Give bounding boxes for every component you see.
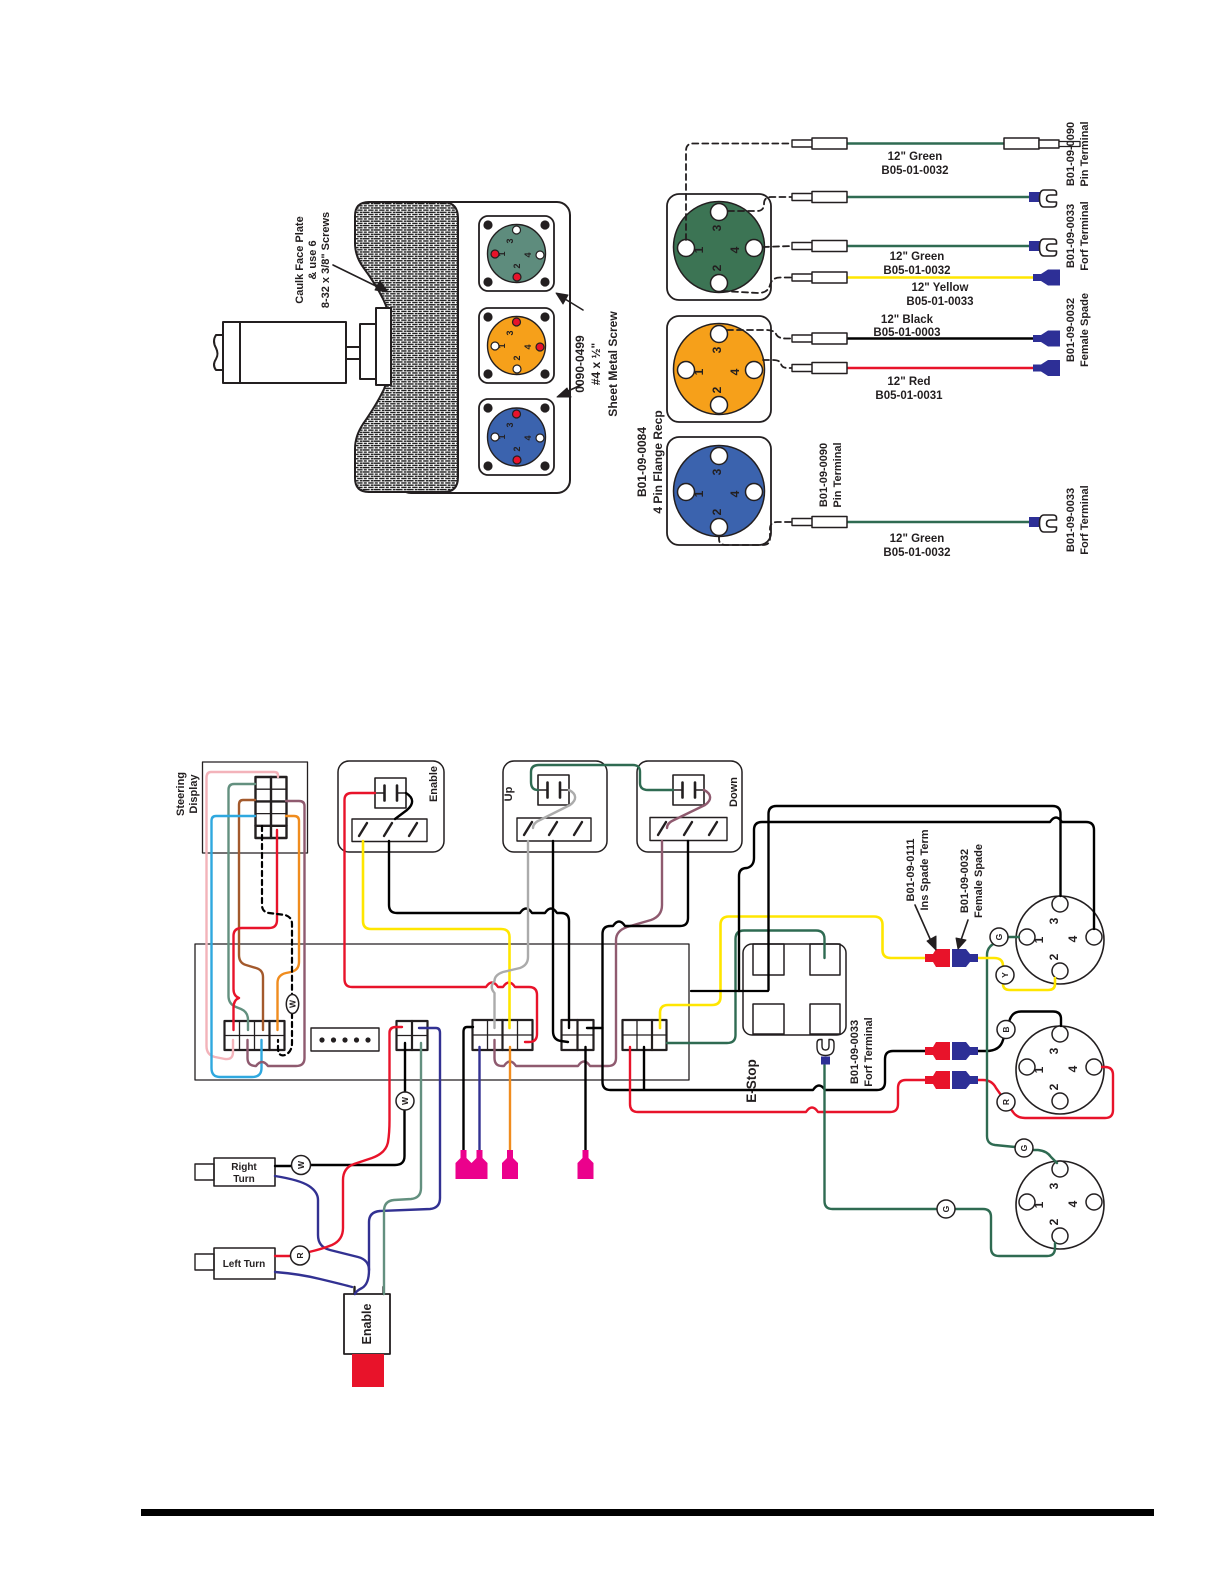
spade pair 1 red <box>925 949 950 967</box>
wire black block E stub <box>643 1047 645 1089</box>
svg-text:R: R <box>1001 1099 1011 1105</box>
right turn box <box>195 1158 275 1186</box>
svg-text:B05-01-0031: B05-01-0031 <box>875 390 943 402</box>
svg-text:12" Green: 12" Green <box>888 151 943 163</box>
svg-text:B01-09-0090: B01-09-0090 <box>818 443 830 507</box>
wire blue block B to enable plug <box>355 1028 440 1294</box>
wire red steering <box>234 830 278 1030</box>
wire purple steering <box>248 801 305 1066</box>
up switch contact symbol <box>538 775 569 805</box>
svg-text:Enable: Enable <box>360 1303 374 1344</box>
svg-text:12" Yellow: 12" Yellow <box>911 282 968 294</box>
wire red spade3 to conn2 pin4 <box>976 1067 1113 1118</box>
svg-text:B01-09-0033: B01-09-0033 <box>1065 204 1077 268</box>
magenta crimp 3 <box>502 1150 518 1179</box>
big flange recp orange <box>667 316 771 422</box>
svg-text:2: 2 <box>710 386 724 393</box>
wire3 12in green fork <box>792 239 1057 277</box>
enable terminal strip <box>352 819 427 842</box>
e-stop fork blue square <box>821 1057 830 1065</box>
svg-text:12" Red: 12" Red <box>887 376 930 388</box>
svg-text:12" Black: 12" Black <box>881 314 934 326</box>
svg-text:4: 4 <box>1066 1065 1080 1072</box>
svg-text:4: 4 <box>728 246 742 253</box>
wire teal up to down <box>531 765 673 790</box>
svg-text:1: 1 <box>497 434 507 439</box>
svg-text:B05-01-0032: B05-01-0032 <box>883 547 950 559</box>
svg-text:B01-09-0032: B01-09-0032 <box>1065 298 1077 362</box>
spade pair 3 blue <box>952 1071 978 1089</box>
output connector 1 <box>1016 896 1104 984</box>
wire black block C to crimp1 <box>464 1027 474 1150</box>
motor cylinder end cap line <box>239 322 241 383</box>
wire gray up to block C <box>492 841 528 1028</box>
svg-text:1: 1 <box>692 368 706 375</box>
G circle conn3 upper <box>1015 1139 1033 1157</box>
wire gray up switch link <box>533 790 575 828</box>
spade pair 2 blue <box>952 1042 978 1060</box>
shaft bar <box>346 347 360 359</box>
receptacle square orange <box>479 308 554 383</box>
wire pink steering loop <box>207 772 279 1059</box>
svg-text:B01-09-0033: B01-09-0033 <box>849 1020 861 1084</box>
svg-text:R: R <box>295 1252 305 1258</box>
svg-text:B: B <box>1001 1026 1011 1032</box>
svg-text:& use 6: & use 6 <box>307 240 319 279</box>
wire dashed steering to W <box>262 826 292 1055</box>
svg-text:2: 2 <box>1047 1083 1061 1090</box>
dashed pin4 orange to wire6 <box>763 360 792 368</box>
e-stop box <box>743 944 846 1035</box>
svg-text:0090-0499: 0090-0499 <box>573 335 587 393</box>
wire green G down to G conn3 pin3 <box>987 943 1057 1163</box>
wire brown steering <box>239 800 263 1030</box>
terminal block B <box>397 1021 428 1050</box>
svg-text:2: 2 <box>512 446 522 451</box>
svg-text:Forf Terminal: Forf Terminal <box>1079 201 1091 270</box>
dashed pin3 green to wire2 <box>728 197 792 211</box>
enable switch box <box>338 761 444 852</box>
svg-text:Right: Right <box>231 1162 257 1173</box>
svg-text:Y: Y <box>1000 972 1010 978</box>
wire red left turn to block B <box>275 1027 402 1256</box>
wire yellow spade1 to conn1 pin2 <box>976 958 1055 990</box>
wire black right turn chain <box>275 1043 405 1166</box>
wire orange steering <box>278 816 300 1030</box>
terminal block E <box>623 1020 667 1050</box>
svg-text:1: 1 <box>1032 1066 1046 1073</box>
wire2 green fork <box>792 190 1057 207</box>
svg-text:12" Green: 12" Green <box>890 533 945 545</box>
arrow caulk <box>333 265 388 292</box>
W meter ellipse on dashed wire <box>286 995 298 1014</box>
wire purple down to block C <box>495 841 663 1066</box>
svg-text:1: 1 <box>692 246 706 253</box>
svg-text:4: 4 <box>523 435 533 440</box>
svg-text:3: 3 <box>505 330 515 335</box>
wire blue left turn <box>275 1272 352 1287</box>
up switch box <box>503 761 607 852</box>
svg-text:B01-09-0090: B01-09-0090 <box>1065 122 1077 186</box>
svg-text:2: 2 <box>710 508 724 515</box>
dashed pin4 green to wire3 <box>763 246 792 247</box>
wire black enable switch link <box>395 793 412 819</box>
svg-text:B05-01-0033: B05-01-0033 <box>906 296 973 308</box>
svg-text:Steering: Steering <box>175 772 187 816</box>
wire5 12in black female spade <box>792 314 1060 347</box>
wire1 12in green pin terminal <box>792 138 1080 177</box>
footer rule <box>141 1509 1154 1516</box>
enable switch contact symbol <box>375 778 406 808</box>
svg-text:B01-09-0084: B01-09-0084 <box>635 427 649 497</box>
svg-text:2: 2 <box>512 263 522 268</box>
svg-text:Female Spade: Female Spade <box>1079 293 1091 367</box>
steering connector grid <box>256 777 287 838</box>
wire teal block B to enable plug <box>384 1043 421 1294</box>
svg-text:Forf Terminal: Forf Terminal <box>863 1017 875 1086</box>
R circle left turn <box>291 1246 310 1265</box>
svg-text:3: 3 <box>710 468 724 475</box>
svg-text:3: 3 <box>710 224 724 231</box>
mount step 2 <box>376 308 391 385</box>
svg-text:4: 4 <box>728 490 742 497</box>
svg-text:2: 2 <box>1047 953 1061 960</box>
G circle conn1 <box>990 928 1008 946</box>
svg-text:W: W <box>288 999 298 1008</box>
svg-text:4: 4 <box>728 368 742 375</box>
svg-text:W: W <box>296 1160 306 1169</box>
svg-text:Caulk Face Plate: Caulk Face Plate <box>294 216 306 303</box>
spade pair 2 red <box>925 1042 950 1060</box>
W circle below block B <box>396 1092 414 1110</box>
svg-text:4: 4 <box>523 252 533 257</box>
svg-text:Sheet Metal Screw: Sheet Metal Screw <box>606 311 620 417</box>
terminal block A <box>225 1021 285 1050</box>
svg-text:1: 1 <box>497 343 507 348</box>
svg-text:2: 2 <box>512 355 522 360</box>
svg-text:G: G <box>941 1205 951 1212</box>
svg-text:4: 4 <box>1066 1200 1080 1207</box>
spade pair 1 blue <box>952 949 978 967</box>
wire black enable to block D <box>389 841 569 1028</box>
wire black to conn1 pin4 <box>739 818 1094 992</box>
svg-text:Female Spade: Female Spade <box>973 844 985 918</box>
panel face plate <box>398 202 570 493</box>
magenta crimp 1 <box>456 1150 472 1179</box>
svg-text:1: 1 <box>1032 1201 1046 1208</box>
svg-text:8-32 x 3/8" Screws: 8-32 x 3/8" Screws <box>320 212 332 308</box>
receptacle square green <box>479 216 554 291</box>
arrow screw lower <box>557 385 581 397</box>
big flange recp green <box>667 194 771 300</box>
svg-text:4 Pin Flange Recp: 4 Pin Flange Recp <box>651 410 665 513</box>
handle knurled grip <box>355 202 458 492</box>
receptacle square blue <box>479 399 554 475</box>
magenta crimp 4 <box>578 1150 594 1179</box>
svg-text:Enable: Enable <box>428 766 440 802</box>
wire black up to block D <box>553 841 568 1042</box>
wire black spade2 to conn2 pin3 <box>976 1012 1061 1052</box>
svg-text:2: 2 <box>710 264 724 271</box>
wire blue right turn <box>275 1176 369 1270</box>
svg-text:Ins Spade Term: Ins Spade Term <box>919 829 931 910</box>
wire yellow block E to spade1 <box>660 917 925 1029</box>
wire red enable <box>345 793 538 1042</box>
wire teal steering <box>229 784 256 1030</box>
e-stop fork terminal <box>817 1040 834 1056</box>
svg-text:#4 x ½": #4 x ½" <box>589 343 603 385</box>
dashed leads <box>686 144 792 546</box>
svg-text:Left Turn: Left Turn <box>223 1259 266 1270</box>
R circle conn2 <box>997 1093 1015 1111</box>
svg-text:Turn: Turn <box>233 1174 254 1185</box>
output connector 2 <box>1016 1026 1104 1114</box>
svg-text:2: 2 <box>1047 1218 1061 1225</box>
svg-text:3: 3 <box>710 346 724 353</box>
svg-text:B01-09-0033: B01-09-0033 <box>1065 488 1077 552</box>
down switch contact symbol <box>673 775 704 805</box>
svg-text:3: 3 <box>1047 1047 1061 1054</box>
wire green estop fork to conn3 pin2 <box>825 1065 1056 1256</box>
wire black estop L <box>691 990 768 992</box>
enable plug box <box>344 1287 390 1387</box>
main controller board <box>195 944 689 1080</box>
wire6 12in red female spade <box>792 360 1060 402</box>
svg-text:B05-01-0003: B05-01-0003 <box>873 327 940 339</box>
wire4 12in yellow female spade <box>792 270 1060 309</box>
svg-text:3: 3 <box>505 422 515 427</box>
magenta crimp 2 <box>472 1150 488 1179</box>
spade pair 3 red <box>925 1071 950 1089</box>
terminal block D <box>562 1020 594 1050</box>
motor nub <box>214 335 223 370</box>
wire yellow enable to block C <box>363 841 510 1028</box>
Y circle conn1 <box>996 966 1014 984</box>
svg-text:3: 3 <box>1047 917 1061 924</box>
wire green G to conn1 pin1 <box>1008 936 1019 938</box>
terminal block C <box>473 1020 533 1050</box>
wire7 12in green fork bottom <box>792 515 1057 559</box>
svg-text:3: 3 <box>505 238 515 243</box>
wire orange block C to crimp3 <box>509 1047 511 1150</box>
arrow female spade <box>956 920 968 949</box>
svg-text:E-Stop: E-Stop <box>744 1059 759 1103</box>
wire black stub to block D <box>587 1027 603 1029</box>
svg-text:4: 4 <box>523 344 533 349</box>
svg-text:1: 1 <box>692 490 706 497</box>
wire purple down switch link <box>667 790 710 828</box>
svg-text:B01-09-0111: B01-09-0111 <box>905 839 917 902</box>
svg-text:12" Green: 12" Green <box>890 251 945 263</box>
svg-text:B05-01-0032: B05-01-0032 <box>881 165 948 177</box>
svg-text:Forf Terminal: Forf Terminal <box>1079 485 1091 554</box>
svg-text:Up: Up <box>503 786 515 801</box>
dashed pin2 blue to wire7 <box>719 522 792 545</box>
wire cyan steering loop <box>212 816 262 1077</box>
steering display box <box>203 762 308 853</box>
output connector 3 <box>1016 1161 1104 1249</box>
svg-text:4: 4 <box>1066 935 1080 942</box>
down terminal strip <box>650 818 727 841</box>
svg-text:3: 3 <box>1047 1182 1061 1189</box>
svg-text:1: 1 <box>497 251 507 256</box>
motor cylinder body <box>223 322 346 383</box>
big flange recp blue <box>667 437 771 545</box>
wire black down to spade2 <box>603 841 926 1090</box>
svg-text:G: G <box>994 933 1004 940</box>
down switch box <box>637 761 742 852</box>
wire blue block C to crimp2 <box>478 1047 480 1150</box>
mount step 1 <box>360 324 376 379</box>
W circle right turn <box>292 1156 311 1175</box>
arrow screw upper <box>556 293 583 310</box>
wire green e-stop to block E <box>667 931 825 1044</box>
svg-text:G: G <box>1019 1144 1029 1151</box>
dashed pin3 orange to wire5 <box>727 330 792 339</box>
svg-text:Display: Display <box>188 774 200 814</box>
G circle conn3 lower <box>937 1200 955 1218</box>
B circle conn2 <box>997 1021 1015 1039</box>
dashed pin1 green to wire1 <box>686 144 792 241</box>
svg-text:B05-01-0032: B05-01-0032 <box>883 265 950 277</box>
svg-text:1: 1 <box>1032 936 1046 943</box>
left turn box <box>195 1248 275 1279</box>
dashed pin2 green to wire4 <box>722 278 792 294</box>
dotted terminal strip <box>311 1028 379 1051</box>
wire red block E to spade3 <box>630 1047 925 1112</box>
up terminal strip <box>517 818 591 841</box>
wire black block D to crimp4 <box>584 1047 586 1150</box>
svg-text:Down: Down <box>728 777 740 807</box>
svg-text:B01-09-0032: B01-09-0032 <box>959 849 971 913</box>
svg-text:Pin Terminal: Pin Terminal <box>1079 121 1091 186</box>
wire black to conn1 pin3 <box>769 806 1061 990</box>
svg-text:Pin Terminal: Pin Terminal <box>832 442 844 507</box>
svg-text:W: W <box>400 1096 410 1105</box>
arrow ins spade <box>915 905 936 950</box>
